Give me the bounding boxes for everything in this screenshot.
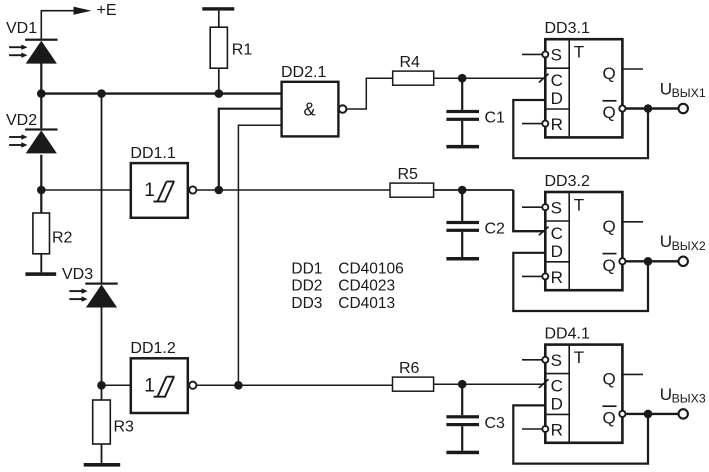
label DD1.1 [130,145,175,162]
wire VD3 to R3 [101,307,103,400]
svg-text:VD1: VD1 [6,20,37,37]
pin Q stub of DD3.1 [622,68,643,70]
Schmitt-trigger inverter DD1.1 [131,163,188,218]
svg-text:ВЫХ1: ВЫХ1 [672,86,706,100]
svg-text:DD3.1: DD3.1 [545,20,590,37]
svg-text:R: R [551,268,563,287]
ground below R2 [25,272,56,276]
svg-text:VD2: VD2 [6,112,37,129]
svg-text:DD1: DD1 [291,260,322,277]
NAND gate DD2.1 [282,82,339,137]
node VD2/R2/DD1.1 junction [37,186,46,195]
label R2 [52,230,73,247]
label U ВЫХ2 [660,232,706,253]
feedback wire Q-bar to D of DD4.1 [513,405,648,463]
label C3 [485,415,506,432]
pin R stub of DD3.1 [522,121,548,127]
svg-text:C3: C3 [485,415,506,432]
svg-text:D: D [551,395,563,414]
D flip-flop DD4.1 [545,345,622,443]
label DD1.2 [130,340,175,357]
resistor R4 [393,71,434,85]
label DD3.2 [545,173,590,190]
resistor R2 [33,213,50,254]
wire VD1 to VD2 [40,63,42,128]
pin C edge-trigger slash of DD3.2 [539,227,549,236]
svg-text:C2: C2 [485,221,506,238]
capacitor C3 [446,384,479,451]
label DD3.1 [545,20,590,37]
node bus/R1 junction [215,89,224,98]
svg-text:1: 1 [144,375,155,396]
wire DD1.2 output to R6 [196,384,392,386]
label VD1 [6,20,37,37]
node DD1.2 output junction [234,381,243,390]
svg-text:R3: R3 [114,419,135,436]
pin R stub of DD4.1 [522,426,548,432]
svg-text:Q: Q [603,103,616,122]
label C2 [485,221,506,238]
Schmitt-trigger inverter DD1.2 [131,358,188,413]
label U ВЫХ1 [660,79,706,100]
label VD2 [6,112,37,129]
svg-text:1: 1 [144,180,155,201]
wire DD1.1 output up to DD2.1 middle input [219,109,282,190]
pin C edge-trigger slash of DD4.1 [539,379,549,388]
svg-text:T: T [574,43,584,62]
capacitor C2 [446,190,479,257]
label R4 [400,54,421,71]
svg-text:Q: Q [603,256,616,275]
svg-text:R4: R4 [400,54,421,71]
svg-text:ВЫХ2: ВЫХ2 [672,239,706,253]
svg-text:DD2.1: DD2.1 [281,64,326,81]
svg-text:T: T [574,348,584,367]
output bubble DD1.2 [189,382,196,389]
capacitor C1 [446,78,479,145]
output wire of DD4.1 [626,413,678,415]
resistor R3 [93,400,111,444]
label C1 [485,110,506,127]
node VD3/R3/DD1.2 junction [97,381,106,390]
inverted output bubble of DD3.1 [619,105,625,111]
svg-text:CD4013: CD4013 [338,295,395,312]
svg-text:R6: R6 [399,360,420,377]
pin R stub of DD3.2 [522,273,548,279]
junction on output of DD4.1 [644,410,653,419]
output terminal ВЫХ1 [679,104,688,113]
wire VD2 to R2 [40,155,42,213]
svg-text:R2: R2 [52,230,73,247]
wire DD1.1 output to R5 [196,189,390,191]
svg-text:DD2: DD2 [291,278,322,295]
svg-text:Q: Q [603,370,616,389]
svg-text:S: S [551,351,562,370]
output terminal ВЫХ2 [679,257,688,266]
svg-text:D: D [551,89,563,108]
svg-text:CD40106: CD40106 [338,260,404,277]
wire R5 to DD3.2 C input with jog [434,190,544,231]
svg-text:DD4.1: DD4.1 [545,325,590,342]
wire DD1.2 output up to DD2.1 bottom input [238,125,281,385]
wire R2 to ground [40,254,42,272]
svg-text:S: S [551,199,562,218]
pin S stub of DD3.2 [522,204,548,210]
wire R1 to bus [218,68,220,93]
output bubble DD1.1 [189,186,196,193]
svg-text:CD4023: CD4023 [338,278,395,295]
output wire of DD3.2 [626,260,678,262]
resistor R1 [210,27,227,68]
svg-text:&: & [304,100,316,120]
node R6/C3 junction [458,380,467,389]
svg-text:ВЫХ3: ВЫХ3 [672,392,706,406]
svg-text:U: U [660,385,672,404]
svg-text:D: D [551,242,563,261]
output wire of DD3.1 [626,107,678,109]
ground below C2 [446,257,479,261]
wire to DD1.2 input [102,384,131,386]
label R3 [114,419,135,436]
resistor R6 [393,377,434,391]
power bar above R1 [202,7,234,10]
pin C edge-trigger slash of DD3.1 [539,74,549,83]
svg-text:DD1.1: DD1.1 [130,145,175,162]
pin Q stub of DD4.1 [622,373,643,375]
svg-text:R: R [551,115,563,134]
svg-text:C: C [551,377,563,396]
svg-text:S: S [551,46,562,65]
svg-text:C: C [551,224,563,243]
label R6 [399,360,420,377]
junction on output of DD3.1 [644,104,653,113]
ground below C3 [446,451,479,455]
pin Q stub of DD3.2 [622,221,643,223]
wire R3 to ground [101,444,103,463]
node R5/C2 junction [458,186,467,195]
label R1 [232,42,253,59]
svg-text:R1: R1 [232,42,253,59]
inverted output bubble of DD3.2 [619,258,625,264]
node VD1/VD2 junction [37,89,46,98]
wire bus to VD3 [101,94,103,283]
svg-text:+E: +E [97,2,117,19]
photodiode VD3 [69,283,117,308]
svg-text:Q: Q [603,409,616,428]
pin S stub of DD3.1 [522,51,548,57]
photodiode VD2 [9,128,57,153]
node R4/C1 junction [458,74,467,83]
svg-text:DD3: DD3 [291,295,322,312]
svg-text:VD3: VD3 [62,266,93,283]
node bus/VD3 riser junction [97,89,106,98]
label DD4.1 [545,325,590,342]
inverted output bubble of DD4.1 [619,411,625,417]
wire to DD1.1 input [41,189,131,191]
label R5 [398,166,419,183]
wire R6 to DD4.1 C input [434,383,544,385]
feedback wire Q-bar to D of DD3.1 [513,100,648,158]
ground below C1 [446,145,479,149]
parts list text [291,260,403,312]
junction on output of DD3.2 [644,257,653,266]
output terminal ВЫХ3 [679,409,688,418]
svg-text:DD1.2: DD1.2 [130,340,175,357]
svg-text:T: T [574,195,584,214]
svg-text:R5: R5 [398,166,419,183]
D flip-flop DD3.2 [545,192,622,290]
main bus wire [40,92,282,94]
D flip-flop DD3.1 [545,39,622,137]
svg-text:DD3.2: DD3.2 [545,173,590,190]
wire R4 to DD3.1 C input [434,77,544,79]
svg-text:U: U [660,79,672,98]
ground below R3 [84,463,121,467]
svg-text:C: C [551,71,563,90]
label U ВЫХ3 [660,385,706,406]
power rail +E [41,2,116,40]
pin S stub of DD4.1 [522,357,548,363]
node DD1.1 output junction [215,186,224,195]
resistor R5 [390,183,434,197]
svg-text:U: U [660,232,672,251]
svg-text:R: R [551,421,563,440]
svg-text:Q: Q [603,217,616,236]
svg-text:C1: C1 [485,110,506,127]
photodiode VD1 [9,39,57,64]
feedback wire Q-bar to D of DD3.2 [513,253,648,311]
label DD2.1 [281,64,326,81]
svg-text:Q: Q [603,64,616,83]
label VD3 [62,266,93,283]
wire DD2.1 output to R4 [347,78,393,109]
wire bar to R1 [218,11,220,28]
output bubble DD2.1 [339,105,347,113]
